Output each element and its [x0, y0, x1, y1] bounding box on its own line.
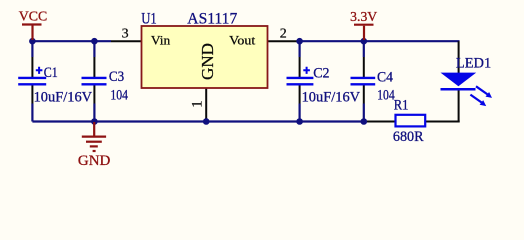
- svg-text:104: 104: [377, 87, 395, 103]
- pin U1.1 GND (black): [205, 88, 207, 119]
- pin LED1 cathode vertical down to rail level: [458, 90, 460, 122]
- wire: C4 column upper blue stub: [363, 41, 365, 57]
- wire: C1 column lower blue stub: [31, 104, 33, 122]
- wire: C2 column upper blue stub: [299, 41, 301, 57]
- wire: C3 column lower blue stub: [93, 104, 95, 122]
- pin R1 left (black): [366, 121, 396, 123]
- wire: bottom ground rail: [32, 120, 366, 122]
- svg-text:C1: C1: [44, 65, 58, 81]
- pin C1 bottom: [31, 85, 33, 104]
- capacitor C1 plates (polarized): [18, 67, 46, 85]
- junction dot U1 pin1: [203, 118, 210, 125]
- LED1 emission arrow lower: [470, 95, 486, 107]
- svg-text:AS1117: AS1117: [187, 10, 237, 27]
- svg-text:C4: C4: [377, 70, 394, 86]
- svg-text:1: 1: [189, 100, 205, 108]
- svg-text:10uF/16V: 10uF/16V: [34, 89, 93, 105]
- pin U1.3 Vin (black): [111, 40, 142, 42]
- LED1 cathode bar: [441, 88, 476, 91]
- LED1 triangle (anode): [441, 73, 477, 87]
- wire: C3 column upper blue stub: [93, 41, 95, 57]
- svg-text:C2: C2: [313, 66, 329, 82]
- wire: U1 pin1 blue tip to bottom rail: [205, 118, 207, 122]
- pin U1.2 Vout (black): [268, 40, 299, 42]
- svg-text:3: 3: [122, 26, 129, 41]
- svg-text:R1: R1: [394, 98, 409, 114]
- junction dot C2 bottom: [296, 118, 303, 125]
- power port VCC: [19, 9, 48, 40]
- junction dot 3.3V / C4 top: [361, 38, 368, 45]
- wire: R1 right pin to LED corner (black): [425, 121, 460, 123]
- C1 plus sign: [36, 67, 43, 74]
- svg-text:104: 104: [110, 88, 128, 104]
- pin C2 bottom: [299, 85, 301, 104]
- junction dot C2 top: [296, 38, 303, 45]
- pin C4 top: [363, 57, 365, 78]
- svg-text:Vout: Vout: [229, 33, 255, 48]
- wire: C4 column lower blue stub: [363, 104, 365, 122]
- pin C2 top: [299, 57, 301, 78]
- C2 plus sign: [303, 67, 310, 74]
- pin C3 top: [93, 57, 95, 78]
- svg-text:Vin: Vin: [151, 33, 171, 48]
- svg-text:LED1: LED1: [456, 56, 491, 72]
- svg-text:10uF/16V: 10uF/16V: [302, 89, 361, 105]
- svg-text:680R: 680R: [393, 129, 424, 145]
- pin C3 bottom: [93, 85, 95, 104]
- wire: C1 column upper blue stub: [31, 41, 33, 57]
- sheet background: [0, 0, 524, 182]
- svg-text:GND: GND: [198, 43, 217, 80]
- capacitor C4 plates: [351, 78, 376, 84]
- LED1 emission arrow upper: [476, 86, 492, 98]
- svg-text:VCC: VCC: [19, 9, 48, 24]
- regulator U1 body (AS1117): [142, 26, 268, 88]
- pin C1 top: [31, 57, 33, 78]
- capacitor C3 plates: [82, 78, 107, 84]
- junction dot VCC: [29, 38, 36, 45]
- wire: C2 column lower blue stub: [299, 104, 301, 122]
- svg-text:3.3V: 3.3V: [350, 9, 377, 24]
- junction dot GND: [91, 118, 98, 125]
- capacitor C2 plates (polarized): [287, 67, 314, 85]
- resistor R1 body: [396, 115, 426, 127]
- svg-text:U1: U1: [141, 10, 157, 27]
- junction dot C4 bottom / R1: [361, 118, 368, 125]
- junction dot C3 top: [91, 38, 98, 45]
- power port GND (earth): [78, 122, 110, 169]
- wire: VCC top rail left segment: [32, 40, 111, 42]
- svg-text:C3: C3: [109, 69, 124, 85]
- wire: 3.3V top rail right segment: [298, 40, 460, 42]
- svg-text:2: 2: [280, 26, 287, 41]
- svg-text:GND: GND: [78, 153, 110, 169]
- power port 3.3V: [350, 9, 377, 40]
- pin LED1 anode vertical: [458, 41, 460, 73]
- pin C4 bottom: [363, 85, 365, 104]
